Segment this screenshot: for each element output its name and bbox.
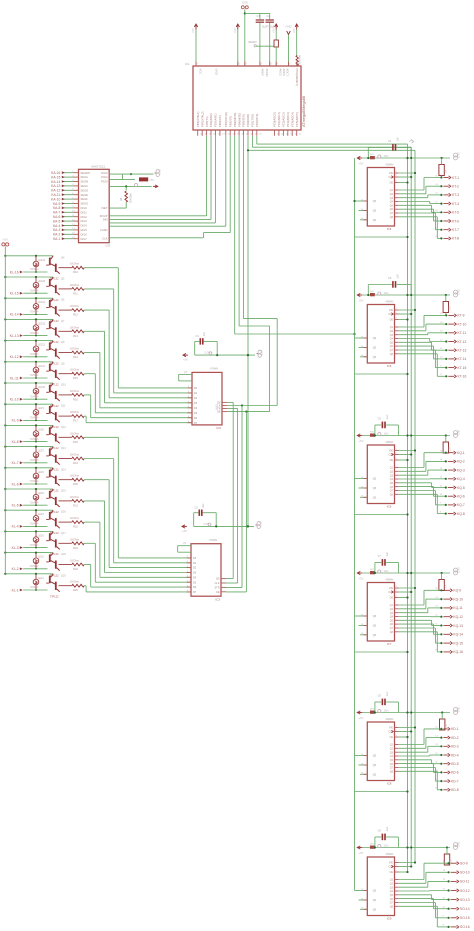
svg-text:KL-5: KL-5 xyxy=(12,504,19,508)
svg-text:GND: GND xyxy=(458,841,461,847)
svg-text:Q11: Q11 xyxy=(61,405,66,408)
svg-text:PD2(INT0): PD2(INT0) xyxy=(255,114,259,127)
svg-text:SO-16: SO-16 xyxy=(460,925,470,929)
svg-text:SEGA: SEGA xyxy=(81,175,89,179)
svg-text:Q2: Q2 xyxy=(390,193,394,196)
svg-text:14: 14 xyxy=(443,870,446,872)
svg-text:Q4: Q4 xyxy=(390,201,394,204)
svg-text:KA-12: KA-12 xyxy=(51,189,60,193)
svg-text:R23: R23 xyxy=(73,546,78,550)
svg-text:P/E: P/E xyxy=(389,309,393,312)
svg-text:QS: QS xyxy=(373,755,377,758)
svg-text:1KOhm: 1KOhm xyxy=(70,559,80,563)
svg-text:KL-11: KL-11 xyxy=(10,376,19,380)
svg-text:DIG3: DIG3 xyxy=(81,219,88,223)
svg-text:LED10: LED10 xyxy=(38,387,46,389)
svg-text:Q8: Q8 xyxy=(390,493,394,496)
svg-text:+5V: +5V xyxy=(359,161,364,165)
svg-text:IC6: IC6 xyxy=(387,505,392,509)
svg-text:R22: R22 xyxy=(73,525,78,529)
svg-text:12: 12 xyxy=(435,201,438,203)
svg-text:TLHR54: TLHR54 xyxy=(30,290,39,292)
svg-text:C5: C5 xyxy=(388,277,392,280)
svg-text:KT-12: KT-12 xyxy=(458,340,467,344)
svg-text:PB2(SS): PB2(SS) xyxy=(228,116,232,127)
svg-text:TLHR54: TLHR54 xyxy=(30,375,39,377)
svg-text:7: 7 xyxy=(277,63,279,65)
svg-text:10: 10 xyxy=(440,357,443,359)
svg-text:4094N: 4094N xyxy=(385,162,393,166)
svg-text:D4: D4 xyxy=(194,407,198,410)
svg-text:Q6: Q6 xyxy=(390,345,394,348)
svg-text:KT-7: KT-7 xyxy=(452,228,459,232)
svg-text:Q3: Q3 xyxy=(390,474,394,477)
svg-text:11: 11 xyxy=(443,897,446,899)
svg-text:KQ-3: KQ-3 xyxy=(457,468,465,472)
svg-text:Q2: Q2 xyxy=(390,330,394,333)
svg-text:QS: QS xyxy=(373,773,377,776)
svg-text:KT-8: KT-8 xyxy=(452,237,459,241)
svg-text:QS: QS xyxy=(373,478,377,481)
svg-text:Q8: Q8 xyxy=(390,631,394,634)
svg-text:OE: OE xyxy=(390,597,394,600)
svg-text:PB3(MOSI): PB3(MOSI) xyxy=(233,113,237,127)
svg-text:1KOhm: 1KOhm xyxy=(70,325,80,329)
svg-text:QP: QP xyxy=(184,372,188,374)
svg-text:15: 15 xyxy=(443,861,446,863)
svg-text:LED9: LED9 xyxy=(38,408,44,410)
svg-text:KQ-2: KQ-2 xyxy=(457,460,465,464)
svg-text:DIG0: DIG0 xyxy=(101,171,108,175)
svg-text:12: 12 xyxy=(295,133,298,135)
svg-text:R10: R10 xyxy=(73,270,78,274)
svg-text:Q9: Q9 xyxy=(61,362,65,365)
svg-text:+5V: +5V xyxy=(3,237,8,241)
svg-text:KT-4: KT-4 xyxy=(452,202,459,206)
svg-text:14: 14 xyxy=(435,184,438,186)
svg-text:PD0(RXD): PD0(RXD) xyxy=(246,114,250,127)
svg-text:GND: GND xyxy=(158,169,161,175)
svg-text:GND: GND xyxy=(458,567,461,573)
svg-text:.1uF: .1uF xyxy=(386,414,389,419)
svg-text:Q1: Q1 xyxy=(390,604,394,607)
svg-text:100n: 100n xyxy=(384,571,390,573)
svg-text:1KOhm: 1KOhm xyxy=(70,431,80,435)
svg-text:KA-15: KA-15 xyxy=(51,175,60,179)
svg-text:KL-9: KL-9 xyxy=(12,419,19,423)
svg-text:KA-16: KA-16 xyxy=(51,171,60,175)
svg-text:Q10: Q10 xyxy=(61,384,66,387)
svg-text:OE: OE xyxy=(390,459,394,462)
svg-text:15: 15 xyxy=(435,727,438,729)
svg-text:BR1: BR1 xyxy=(370,709,375,711)
svg-text:LED6: LED6 xyxy=(38,472,44,474)
svg-text:R19: R19 xyxy=(73,461,78,465)
svg-text:4094N: 4094N xyxy=(385,717,393,721)
svg-text:ATmega8/Mega88: ATmega8/Mega88 xyxy=(302,96,306,127)
svg-text:12: 12 xyxy=(222,133,225,135)
svg-text:PB5(SCK): PB5(SCK) xyxy=(242,114,246,127)
svg-text:Q6: Q6 xyxy=(390,763,394,766)
svg-text:D1: D1 xyxy=(193,562,197,565)
svg-text:DIG6: DIG6 xyxy=(81,232,88,236)
svg-text:PD1(TXD): PD1(TXD) xyxy=(251,114,255,127)
svg-text:1KOhm: 1KOhm xyxy=(70,537,80,541)
svg-text:28KOhm: 28KOhm xyxy=(129,193,132,203)
svg-text:KD-2: KD-2 xyxy=(451,736,459,740)
svg-text:Q6: Q6 xyxy=(61,299,65,302)
svg-text:Q2: Q2 xyxy=(390,747,394,750)
svg-text:1KOhm: 1KOhm xyxy=(70,516,80,520)
svg-text:+5V: +5V xyxy=(359,576,364,580)
svg-text:Q7: Q7 xyxy=(390,490,394,493)
svg-text:QS: QS xyxy=(373,496,377,499)
svg-text:DIG0: DIG0 xyxy=(81,206,88,210)
svg-text:.1uF: .1uF xyxy=(396,274,399,279)
svg-text:+5V: +5V xyxy=(292,28,296,33)
svg-text:Q5: Q5 xyxy=(390,894,394,897)
svg-text:R12: R12 xyxy=(73,313,78,317)
svg-text:QS: QS xyxy=(373,908,377,911)
svg-text:QS: QS xyxy=(373,899,377,902)
svg-text:+5V: +5V xyxy=(271,28,275,33)
svg-text:1KOhm: 1KOhm xyxy=(70,304,80,308)
svg-text:12: 12 xyxy=(440,339,443,341)
svg-text:9: 9 xyxy=(443,916,445,918)
svg-text:KQ-15: KQ-15 xyxy=(453,641,463,645)
svg-text:15: 15 xyxy=(440,451,443,453)
svg-text:PB1(OC1A): PB1(OC1A) xyxy=(224,112,228,127)
svg-text:ISET: ISET xyxy=(102,206,108,210)
svg-text:D0: D0 xyxy=(194,387,198,390)
svg-text:12: 12 xyxy=(246,133,249,135)
svg-text:100n: 100n xyxy=(384,293,390,295)
svg-text:D5: D5 xyxy=(193,581,197,584)
svg-text:C6: C6 xyxy=(378,418,382,421)
svg-text:10K: 10K xyxy=(445,584,447,589)
svg-text:12: 12 xyxy=(259,133,262,135)
svg-text:LED2: LED2 xyxy=(38,557,44,559)
svg-text:QS: QS xyxy=(373,347,377,350)
svg-text:Q3: Q3 xyxy=(390,612,394,615)
svg-text:ADC7: ADC7 xyxy=(286,69,290,77)
svg-text:OE: OE xyxy=(390,182,394,185)
svg-text:LED7: LED7 xyxy=(38,451,44,453)
svg-text:Q19: Q19 xyxy=(61,574,66,577)
svg-text:KQ-12: KQ-12 xyxy=(453,615,463,619)
svg-text:Q8: Q8 xyxy=(390,770,394,773)
svg-text:KD-1: KD-1 xyxy=(451,727,459,731)
svg-text:Q7: Q7 xyxy=(390,767,394,770)
svg-text:Q6: Q6 xyxy=(390,486,394,489)
svg-text:D3: D3 xyxy=(193,572,197,575)
svg-text:DIG5: DIG5 xyxy=(81,228,88,232)
svg-text:12: 12 xyxy=(200,133,203,135)
svg-text:12: 12 xyxy=(218,133,221,135)
svg-text:SEGD: SEGD xyxy=(81,188,89,192)
svg-text:TLHR54: TLHR54 xyxy=(30,354,39,356)
svg-text:SO-11: SO-11 xyxy=(460,880,469,884)
svg-text:KT-1: KT-1 xyxy=(452,176,459,180)
svg-text:BR1: BR1 xyxy=(370,154,375,156)
svg-text:PB4(MISO): PB4(MISO) xyxy=(237,113,241,127)
svg-text:11: 11 xyxy=(435,210,438,212)
svg-text:+5V: +5V xyxy=(359,439,364,443)
svg-text:KQ-11: KQ-11 xyxy=(453,606,462,610)
svg-text:7: 7 xyxy=(271,63,273,65)
svg-text:R20: R20 xyxy=(73,482,78,486)
svg-text:+5V: +5V xyxy=(359,851,364,855)
svg-text:P/E: P/E xyxy=(389,587,393,590)
svg-text:1KOhm: 1KOhm xyxy=(70,283,80,287)
svg-text:LED3: LED3 xyxy=(38,535,44,537)
svg-text:KL-15: KL-15 xyxy=(10,292,19,296)
svg-text:1KOhm: 1KOhm xyxy=(70,453,80,457)
svg-text:IC2: IC2 xyxy=(217,426,222,430)
svg-text:+5V: +5V xyxy=(191,28,195,33)
svg-text:Q3: Q3 xyxy=(390,197,394,200)
svg-text:9: 9 xyxy=(440,503,442,505)
svg-text:100n: 100n xyxy=(384,434,390,436)
svg-text:SEGB: SEGB xyxy=(81,180,89,184)
svg-text:QS: QS xyxy=(216,578,220,581)
svg-text:D2: D2 xyxy=(193,567,197,570)
svg-text:KT-16: KT-16 xyxy=(458,375,467,379)
svg-text:8: 8 xyxy=(440,511,442,513)
svg-text:7: 7 xyxy=(289,63,291,65)
svg-text:TLHR54: TLHR54 xyxy=(30,587,39,589)
svg-text:SEGC: SEGC xyxy=(81,184,89,188)
svg-text:Q1: Q1 xyxy=(390,467,394,470)
svg-text:.1uF: .1uF xyxy=(386,826,389,831)
svg-text:KD-4: KD-4 xyxy=(451,753,459,757)
svg-text:7: 7 xyxy=(246,63,248,65)
svg-text:.1uF: .1uF xyxy=(386,552,389,557)
svg-text:QS: QS xyxy=(373,890,377,893)
svg-text:SEGDP: SEGDP xyxy=(81,171,91,175)
svg-text:Q17: Q17 xyxy=(61,532,66,535)
svg-text:10: 10 xyxy=(443,907,446,909)
svg-text:Q4: Q4 xyxy=(390,890,394,893)
svg-text:100n: 100n xyxy=(384,156,390,158)
svg-text:Q3: Q3 xyxy=(390,334,394,337)
svg-text:RESET: RESET xyxy=(249,41,258,44)
svg-text:KL-4: KL-4 xyxy=(12,525,19,529)
svg-text:CLK: CLK xyxy=(102,237,107,241)
svg-text:Q8: Q8 xyxy=(61,341,65,344)
svg-text:QS: QS xyxy=(373,337,377,340)
svg-text:KA-9: KA-9 xyxy=(53,202,60,206)
svg-text:KA-4: KA-4 xyxy=(53,224,60,228)
svg-text:SEGF: SEGF xyxy=(81,197,89,201)
svg-text:KT-2: KT-2 xyxy=(452,185,459,189)
svg-text:Q5: Q5 xyxy=(390,204,394,207)
svg-text:SO-15: SO-15 xyxy=(460,916,470,920)
svg-text:OE: OE xyxy=(390,736,394,739)
svg-text:KQ-8: KQ-8 xyxy=(457,512,465,516)
svg-text:TLHR54: TLHR54 xyxy=(30,439,39,441)
svg-text:KT-13: KT-13 xyxy=(458,349,467,353)
svg-text:1KOhm: 1KOhm xyxy=(70,580,80,584)
svg-text:KT-6: KT-6 xyxy=(452,219,459,223)
svg-text:KT-9: KT-9 xyxy=(458,314,465,318)
svg-text:14: 14 xyxy=(440,459,443,461)
svg-text:Q8: Q8 xyxy=(390,905,394,908)
svg-text:SO-10: SO-10 xyxy=(460,871,470,875)
svg-text:DIG1: DIG1 xyxy=(81,210,88,214)
svg-text:VCC: VCC xyxy=(199,69,203,75)
svg-text:1KOhm: 1KOhm xyxy=(70,368,80,372)
svg-text:1KOhm: 1KOhm xyxy=(70,262,80,266)
svg-text:LED1: LED1 xyxy=(38,578,44,580)
svg-text:KQ-13: KQ-13 xyxy=(453,624,463,628)
svg-text:8: 8 xyxy=(443,925,445,927)
svg-text:Q15: Q15 xyxy=(61,490,66,493)
svg-text:PB0(ICP): PB0(ICP) xyxy=(218,115,222,127)
svg-text:Q5: Q5 xyxy=(61,278,65,281)
svg-text:11: 11 xyxy=(440,348,443,350)
svg-text:OE: OE xyxy=(216,591,220,594)
svg-text:PC1(ADC1): PC1(ADC1) xyxy=(277,112,281,127)
svg-text:R25: R25 xyxy=(73,588,78,592)
svg-text:Q7: Q7 xyxy=(390,627,394,630)
svg-text:D3: D3 xyxy=(194,402,198,405)
svg-text:4794N: 4794N xyxy=(209,538,217,542)
svg-text:.1uF: .1uF xyxy=(386,691,389,696)
svg-text:STR: STR xyxy=(215,587,220,590)
svg-text:KA-6: KA-6 xyxy=(53,215,60,219)
svg-text:ADC6: ADC6 xyxy=(282,69,286,77)
svg-text:Q5: Q5 xyxy=(390,482,394,485)
svg-text:13: 13 xyxy=(435,744,438,746)
svg-text:Q2: Q2 xyxy=(390,608,394,611)
svg-text:10: 10 xyxy=(440,494,443,496)
svg-text:Q6: Q6 xyxy=(390,623,394,626)
svg-text:AREF: AREF xyxy=(261,69,265,77)
svg-text:+5V: +5V xyxy=(359,298,364,302)
svg-text:TLHR54: TLHR54 xyxy=(30,545,39,547)
svg-text:KL-8: KL-8 xyxy=(12,440,19,444)
svg-text:11: 11 xyxy=(435,623,438,625)
svg-text:Q13: Q13 xyxy=(61,447,66,450)
svg-text:CLK: CLK xyxy=(215,582,220,585)
svg-text:7: 7 xyxy=(239,63,241,65)
svg-text:PC5(ADC5): PC5(ADC5) xyxy=(295,112,299,127)
svg-text:Q8: Q8 xyxy=(390,353,394,356)
svg-text:QS: QS xyxy=(373,487,377,490)
svg-text:1KOhm: 1KOhm xyxy=(70,410,80,414)
svg-text:Q7: Q7 xyxy=(390,212,394,215)
svg-text:LED5: LED5 xyxy=(38,493,44,495)
svg-text:100n: 100n xyxy=(384,711,390,713)
svg-text:12: 12 xyxy=(435,753,438,755)
svg-text:LED4: LED4 xyxy=(38,514,44,516)
svg-text:Q7: Q7 xyxy=(390,349,394,352)
svg-text:100n: 100n xyxy=(384,846,390,848)
svg-text:10K: 10K xyxy=(446,723,448,728)
svg-text:Q1: Q1 xyxy=(390,879,394,882)
svg-text:DIN: DIN xyxy=(103,218,108,222)
svg-text:SO-9: SO-9 xyxy=(460,862,468,866)
svg-text:R8: R8 xyxy=(120,197,123,201)
svg-text:KQ-9: KQ-9 xyxy=(453,589,461,593)
svg-text:4094N: 4094N xyxy=(385,440,393,444)
svg-text:13: 13 xyxy=(440,331,443,333)
svg-text:Q7: Q7 xyxy=(390,902,394,905)
svg-text:SO-13: SO-13 xyxy=(460,898,470,902)
svg-text:DIG2: DIG2 xyxy=(81,215,88,219)
svg-text:GND: GND xyxy=(214,69,218,75)
svg-text:P/E: P/E xyxy=(389,727,393,730)
svg-text:Q5: Q5 xyxy=(390,619,394,622)
svg-text:R14: R14 xyxy=(73,355,78,359)
svg-text:QS: QS xyxy=(373,625,377,628)
svg-text:TLHR54: TLHR54 xyxy=(30,524,39,526)
svg-text:1KOhm: 1KOhm xyxy=(70,347,80,351)
svg-text:KD-3: KD-3 xyxy=(451,745,459,749)
svg-text:12: 12 xyxy=(443,888,446,890)
svg-text:KD-7: KD-7 xyxy=(451,779,459,783)
svg-text:KA-8: KA-8 xyxy=(53,206,60,210)
svg-text:PD7(AIN1): PD7(AIN1) xyxy=(214,113,218,127)
svg-text:15: 15 xyxy=(440,313,443,315)
svg-text:IC3: IC3 xyxy=(216,598,221,602)
svg-text:12: 12 xyxy=(440,477,443,479)
svg-text:DIG7: DIG7 xyxy=(81,237,88,241)
svg-text:TIP122: TIP122 xyxy=(50,595,59,599)
svg-text:D6: D6 xyxy=(194,417,198,420)
svg-text:Q18: Q18 xyxy=(61,553,66,556)
svg-text:IC9: IC9 xyxy=(387,917,392,921)
svg-text:8: 8 xyxy=(440,374,442,376)
svg-text:12: 12 xyxy=(281,133,284,135)
svg-text:KL-7: KL-7 xyxy=(12,461,19,465)
svg-text:Q1: Q1 xyxy=(390,189,394,192)
svg-text:D0: D0 xyxy=(193,557,197,560)
svg-text:D2: D2 xyxy=(194,397,198,400)
svg-text:+5V: +5V xyxy=(359,716,364,720)
svg-text:KA-2: KA-2 xyxy=(53,233,60,237)
svg-text:15: 15 xyxy=(435,175,438,177)
svg-text:KD-8: KD-8 xyxy=(451,788,459,792)
svg-text:OE: OE xyxy=(217,411,221,414)
svg-text:12: 12 xyxy=(435,615,438,617)
svg-text:4094N: 4094N xyxy=(385,577,393,581)
svg-text:LED12: LED12 xyxy=(38,345,46,347)
svg-text:14: 14 xyxy=(435,597,438,599)
svg-text:KA-14: KA-14 xyxy=(51,180,60,184)
svg-text:14: 14 xyxy=(440,322,443,324)
svg-text:QP: QP xyxy=(183,543,187,545)
svg-text:OE: OE xyxy=(390,319,394,322)
svg-text:Q4: Q4 xyxy=(390,338,394,341)
svg-text:Q4: Q4 xyxy=(390,755,394,758)
svg-text:LED8: LED8 xyxy=(38,429,44,431)
svg-text:1KOhm: 1KOhm xyxy=(70,389,80,393)
svg-text:MAX7221: MAX7221 xyxy=(92,164,106,168)
svg-text:Q1: Q1 xyxy=(390,326,394,329)
svg-text:KT-5: KT-5 xyxy=(452,211,459,215)
svg-text:10K: 10K xyxy=(451,858,453,863)
svg-text:KQ-16: KQ-16 xyxy=(453,650,463,654)
svg-text:TLHR54: TLHR54 xyxy=(30,502,39,504)
svg-text:GND: GND xyxy=(458,152,461,158)
svg-text:12: 12 xyxy=(233,133,236,135)
svg-text:13: 13 xyxy=(435,606,438,608)
svg-text:TLHR54: TLHR54 xyxy=(30,418,39,420)
svg-text:BR1: BR1 xyxy=(370,291,375,293)
svg-text:D6: D6 xyxy=(193,586,197,589)
